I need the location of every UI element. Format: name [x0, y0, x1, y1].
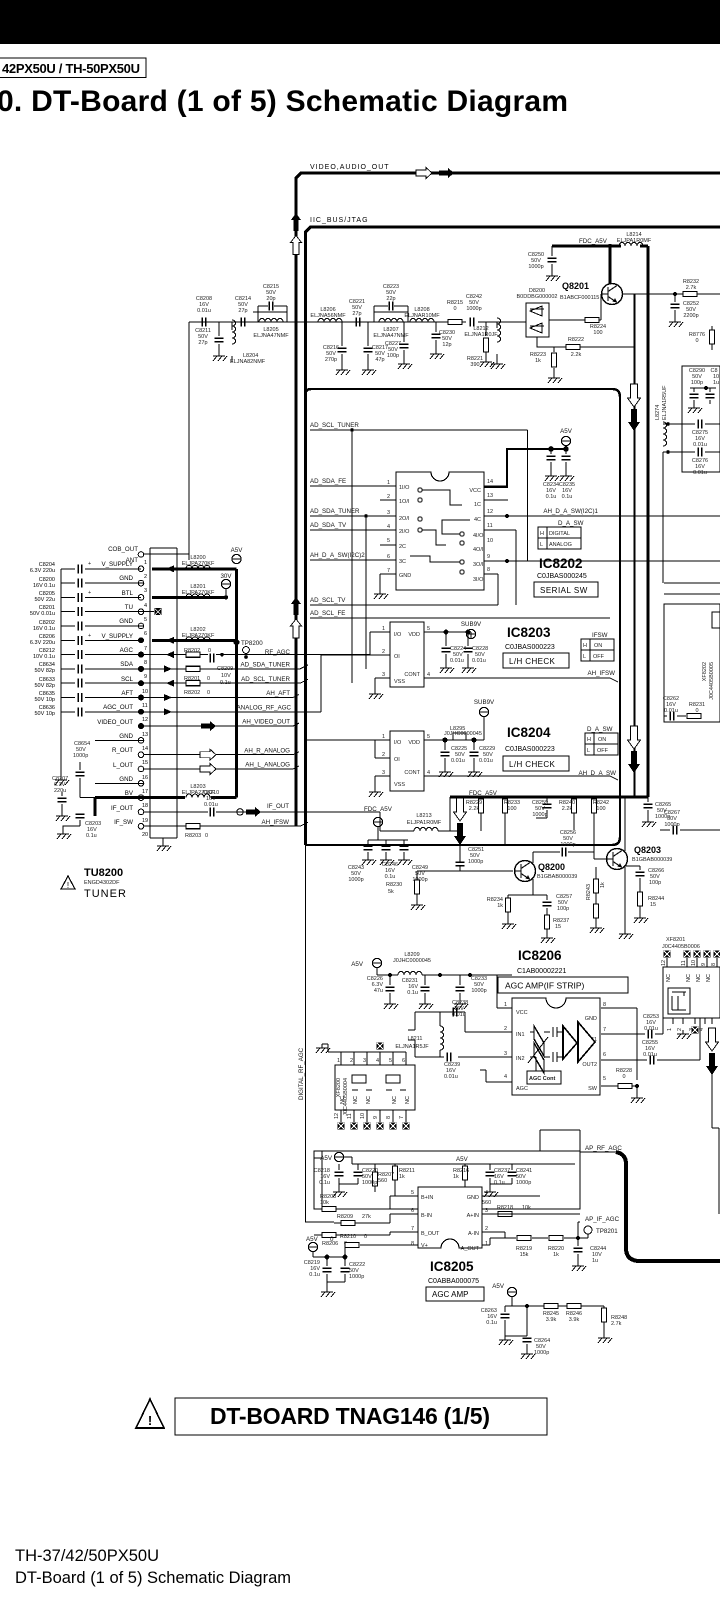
svg-text:A5V: A5V: [456, 1156, 469, 1163]
svg-text:1u: 1u: [592, 1258, 598, 1264]
svg-text:7: 7: [144, 646, 147, 652]
svg-text:560: 560: [482, 1200, 491, 1206]
svg-text:0.1u: 0.1u: [486, 1320, 497, 1326]
svg-text:7: 7: [411, 1226, 414, 1232]
svg-text:GND: GND: [585, 1016, 597, 1022]
svg-text:ELJNA1R5JF: ELJNA1R5JF: [395, 1044, 429, 1050]
svg-text:6: 6: [603, 1052, 606, 1058]
svg-text:1: 1: [485, 1241, 488, 1247]
svg-text:0.1u: 0.1u: [407, 990, 418, 996]
svg-text:1000p: 1000p: [348, 877, 363, 883]
svg-text:B0DDBG000002: B0DDBG000002: [517, 294, 558, 300]
svg-text:A5V: A5V: [492, 1283, 505, 1290]
svg-text:4: 4: [427, 770, 430, 776]
svg-text:6: 6: [402, 1058, 405, 1064]
svg-text:A+IN: A+IN: [467, 1213, 479, 1219]
svg-text:100p: 100p: [557, 906, 569, 912]
svg-text:3O/I: 3O/I: [473, 562, 484, 568]
svg-text:10k: 10k: [522, 1205, 531, 1211]
svg-text:AP_IF_AGC: AP_IF_AGC: [585, 1216, 620, 1223]
svg-text:0.01u: 0.01u: [644, 1026, 658, 1032]
svg-text:1000p: 1000p: [534, 1350, 549, 1356]
svg-text:TU8200: TU8200: [84, 867, 123, 879]
svg-text:AGC AMP(IF STRIP): AGC AMP(IF STRIP): [505, 981, 585, 991]
svg-text:4O/I: 4O/I: [473, 547, 484, 553]
svg-text:VDD: VDD: [408, 740, 420, 746]
svg-text:2: 2: [350, 1058, 353, 1064]
svg-text:AH_L_ANALOG: AH_L_ANALOG: [245, 762, 290, 769]
svg-text:ELJNA47NMF: ELJNA47NMF: [253, 333, 289, 339]
svg-text:0.1u: 0.1u: [562, 494, 573, 500]
svg-text:SDA: SDA: [120, 661, 134, 668]
svg-text:0: 0: [330, 1236, 334, 1243]
svg-text:0.01u: 0.01u: [204, 802, 218, 808]
svg-text:100p: 100p: [387, 353, 399, 359]
svg-text:100: 100: [507, 806, 516, 812]
svg-text:H: H: [587, 737, 591, 743]
svg-text:SW: SW: [588, 1086, 598, 1092]
svg-text:OFF: OFF: [597, 748, 609, 754]
svg-text:2: 2: [144, 574, 147, 580]
svg-text:AGC_OUT: AGC_OUT: [103, 704, 133, 711]
svg-text:AH_VIDEO_OUT: AH_VIDEO_OUT: [242, 719, 290, 726]
svg-text:8: 8: [411, 1241, 414, 1247]
svg-text:AD_SCL_TUNER: AD_SCL_TUNER: [310, 422, 359, 429]
svg-text:4: 4: [485, 1190, 488, 1196]
svg-text:AH_D_A_SW(I2C)2: AH_D_A_SW(I2C)2: [310, 552, 365, 559]
svg-text:1: 1: [144, 560, 147, 566]
svg-text:27p: 27p: [198, 340, 207, 346]
svg-text:NC: NC: [696, 974, 702, 982]
svg-text:6.3V 220u: 6.3V 220u: [30, 640, 55, 646]
svg-text:5k: 5k: [388, 889, 394, 895]
svg-text:AD_SDA_FE: AD_SDA_FE: [310, 478, 346, 485]
svg-text:27p: 27p: [238, 308, 247, 314]
svg-text:14: 14: [487, 479, 493, 485]
svg-text:OFF: OFF: [593, 654, 605, 660]
svg-text:DT-BOARD TNAG146 (1/5): DT-BOARD TNAG146 (1/5): [210, 1403, 490, 1429]
svg-text:10V 0.1u: 10V 0.1u: [33, 654, 55, 660]
svg-text:3: 3: [382, 770, 385, 776]
svg-text:10: 10: [360, 1113, 366, 1119]
svg-text:I/O: I/O: [394, 632, 402, 638]
svg-text:2200p: 2200p: [683, 313, 698, 319]
svg-text:3.9k: 3.9k: [569, 1317, 580, 1323]
svg-text:NC: NC: [366, 1096, 372, 1104]
svg-text:27k: 27k: [362, 1214, 371, 1220]
svg-text:H: H: [540, 531, 544, 537]
svg-text:ENGD4302DF: ENGD4302DF: [84, 880, 120, 886]
svg-text:SUB9V: SUB9V: [461, 621, 482, 628]
svg-text:100: 100: [593, 330, 602, 336]
svg-text:AD_SDA_TV: AD_SDA_TV: [310, 522, 347, 529]
svg-text:12: 12: [142, 717, 148, 723]
svg-text:5: 5: [144, 617, 147, 623]
svg-text:DIGITAL_RF_AGC: DIGITAL_RF_AGC: [298, 1047, 305, 1100]
svg-text:6: 6: [144, 631, 147, 637]
svg-text:30V: 30V: [220, 573, 232, 580]
svg-text:IC8205: IC8205: [430, 1259, 474, 1274]
svg-text:1I/O: 1I/O: [399, 485, 410, 491]
svg-text:VDD: VDD: [408, 632, 420, 638]
svg-text:L_OUT: L_OUT: [113, 762, 133, 769]
svg-text:0.01u: 0.01u: [664, 708, 678, 714]
svg-text:20: 20: [142, 832, 148, 838]
svg-text:A_OUT: A_OUT: [461, 1246, 480, 1252]
svg-text:20p: 20p: [266, 296, 275, 302]
svg-text:ELJNAR10MF: ELJNAR10MF: [404, 313, 440, 319]
svg-text:47u: 47u: [374, 988, 383, 994]
svg-text:0.1u: 0.1u: [86, 833, 97, 839]
svg-text:C0JBAS000223: C0JBAS000223: [505, 746, 555, 753]
svg-text:A5V: A5V: [560, 428, 573, 435]
svg-text:6: 6: [411, 1208, 414, 1214]
svg-text:6.3V 220u: 6.3V 220u: [30, 568, 55, 574]
svg-text:1000p: 1000p: [471, 988, 486, 994]
svg-text:FDC_A5V: FDC_A5V: [469, 790, 498, 797]
svg-text:17: 17: [142, 789, 148, 795]
svg-text:100p: 100p: [691, 380, 703, 386]
svg-text:2: 2: [504, 1026, 507, 1032]
svg-text:3: 3: [363, 1058, 366, 1064]
svg-text:C0ABBA000075: C0ABBA000075: [428, 1278, 479, 1285]
svg-text:0.01u: 0.01u: [450, 658, 464, 664]
svg-text:3C: 3C: [399, 559, 406, 565]
svg-text:IF_OUT: IF_OUT: [111, 805, 133, 812]
svg-text:0.1u: 0.1u: [319, 1180, 330, 1186]
svg-text:1000p: 1000p: [516, 1180, 531, 1186]
svg-text:3: 3: [485, 1208, 488, 1214]
svg-text:ELJNA1R5UF: ELJNA1R5UF: [662, 385, 668, 420]
svg-text:IF_OUT: IF_OUT: [267, 803, 289, 810]
svg-text:L: L: [540, 542, 543, 548]
svg-text:NC: NC: [392, 1096, 398, 1104]
svg-text:2: 2: [387, 494, 390, 500]
svg-text:R_OUT: R_OUT: [112, 747, 133, 754]
svg-text:AD_SCL_FE: AD_SCL_FE: [310, 610, 345, 617]
svg-text:18: 18: [142, 803, 148, 809]
svg-text:3: 3: [382, 672, 385, 678]
svg-text:AGC: AGC: [120, 647, 134, 654]
svg-text:J0C4405B0005: J0C4405B0005: [709, 662, 715, 700]
svg-text:9: 9: [487, 554, 490, 560]
svg-text:1: 1: [382, 734, 385, 740]
svg-text:OUT2: OUT2: [582, 1062, 597, 1068]
svg-text:0: 0: [622, 1074, 625, 1080]
svg-text:NC: NC: [686, 974, 692, 982]
svg-text:270p: 270p: [325, 357, 337, 363]
svg-text:1k: 1k: [497, 903, 503, 909]
svg-text:2.2k: 2.2k: [571, 352, 582, 358]
svg-text:AGC AMP: AGC AMP: [432, 1290, 468, 1299]
svg-text:4: 4: [144, 603, 147, 609]
svg-text:BTL: BTL: [122, 590, 134, 597]
svg-text:1000p: 1000p: [468, 859, 483, 865]
svg-text:XF8201: XF8201: [666, 937, 685, 943]
svg-text:ELJPA270KF: ELJPA270KF: [182, 633, 215, 639]
svg-text:ELJPA1R0MF: ELJPA1R0MF: [407, 820, 442, 826]
svg-text:8: 8: [487, 567, 490, 573]
svg-text:R8218: R8218: [497, 1205, 513, 1211]
svg-text:47p: 47p: [375, 357, 384, 363]
svg-text:ANALOG: ANALOG: [549, 542, 572, 548]
svg-text:NC: NC: [340, 1096, 346, 1104]
svg-text:12: 12: [661, 960, 667, 966]
svg-text:AH_R_ANALOG: AH_R_ANALOG: [244, 747, 290, 754]
svg-text:8: 8: [144, 660, 147, 666]
svg-text:390: 390: [470, 362, 479, 368]
svg-text:4I/O: 4I/O: [473, 533, 484, 539]
svg-text:R8202: R8202: [184, 690, 200, 696]
svg-text:11: 11: [347, 1113, 353, 1119]
svg-text:2.2k: 2.2k: [469, 806, 480, 812]
svg-text:GND: GND: [119, 776, 133, 783]
svg-text:COB_OUT: COB_OUT: [108, 546, 138, 553]
svg-text:1: 1: [382, 626, 385, 632]
svg-text:OI: OI: [394, 654, 400, 660]
svg-text:A-IN: A-IN: [468, 1231, 479, 1237]
svg-text:5: 5: [387, 538, 390, 544]
svg-text:0: 0: [205, 833, 208, 839]
svg-text:0.1u: 0.1u: [309, 1272, 320, 1278]
svg-text:TUNER: TUNER: [84, 888, 127, 900]
svg-text:15: 15: [650, 902, 656, 908]
svg-text:11: 11: [487, 523, 493, 529]
svg-text:3I/O: 3I/O: [473, 577, 484, 583]
svg-text:15: 15: [142, 760, 148, 766]
svg-text:1000p: 1000p: [466, 306, 481, 312]
svg-text:Q8200: Q8200: [538, 862, 565, 872]
svg-text:XF8200: XF8200: [336, 1078, 342, 1097]
svg-text:ELJPA270KF: ELJPA270KF: [182, 590, 215, 596]
svg-text:1000p: 1000p: [664, 822, 679, 828]
svg-text:7: 7: [603, 1027, 606, 1033]
svg-text:9: 9: [701, 963, 707, 966]
svg-text:4: 4: [387, 524, 390, 530]
svg-text:1u: 1u: [713, 380, 719, 386]
svg-text:IC8204: IC8204: [507, 725, 551, 740]
svg-text:AH_IFSW: AH_IFSW: [261, 819, 289, 826]
svg-text:IN2: IN2: [516, 1056, 525, 1062]
svg-text:J0C4405B0006: J0C4405B0006: [662, 944, 700, 950]
svg-text:TP8200: TP8200: [241, 640, 263, 647]
svg-text:8: 8: [603, 1002, 606, 1008]
svg-text:IN1: IN1: [516, 1032, 525, 1038]
svg-text:2.2k: 2.2k: [562, 806, 573, 812]
svg-text:C1AB00002221: C1AB00002221: [517, 968, 567, 975]
svg-text:1: 1: [337, 1058, 340, 1064]
svg-text:XF8202: XF8202: [702, 662, 708, 681]
svg-text:NC: NC: [405, 1096, 411, 1104]
svg-text:50V 22u: 50V 22u: [35, 597, 56, 603]
svg-text:1O/I: 1O/I: [399, 499, 410, 505]
svg-text:AGC Cont: AGC Cont: [529, 1076, 555, 1082]
svg-text:TP8201: TP8201: [596, 1228, 618, 1235]
svg-text:VSS: VSS: [394, 782, 405, 788]
svg-text:0: 0: [208, 648, 211, 654]
svg-text:27p: 27p: [352, 311, 361, 317]
svg-text:9: 9: [373, 1116, 379, 1119]
svg-text:V_SUPPLY: V_SUPPLY: [101, 633, 133, 640]
svg-text:7: 7: [399, 1116, 405, 1119]
svg-text:IC8206: IC8206: [518, 948, 562, 963]
svg-text:AGC: AGC: [516, 1086, 528, 1092]
svg-text:10: 10: [487, 538, 493, 544]
svg-text:AFT: AFT: [121, 690, 133, 697]
svg-text:5: 5: [427, 626, 430, 632]
svg-text:VSS: VSS: [394, 679, 405, 685]
svg-text:2: 2: [382, 649, 385, 655]
svg-text:NC: NC: [666, 974, 672, 982]
svg-text:0.01u: 0.01u: [197, 308, 211, 314]
svg-text:0: 0: [207, 676, 210, 682]
svg-text:L/H CHECK: L/H CHECK: [509, 657, 556, 666]
svg-text:R8230: R8230: [386, 882, 402, 888]
svg-text:4: 4: [427, 672, 430, 678]
svg-text:A5V: A5V: [320, 1155, 333, 1162]
svg-text:ELJNA82NMF: ELJNA82NMF: [230, 359, 266, 365]
svg-text:0.01u: 0.01u: [451, 758, 465, 764]
svg-text:L8274: L8274: [655, 405, 661, 420]
svg-text:AH_AFT: AH_AFT: [266, 690, 290, 697]
svg-text:R8210: R8210: [340, 1234, 356, 1240]
svg-text:FDC_A5V: FDC_A5V: [364, 806, 393, 813]
svg-text:AD_SCL_TV: AD_SCL_TV: [310, 597, 346, 604]
svg-text:0: 0: [207, 690, 210, 696]
svg-text:14: 14: [142, 746, 148, 752]
svg-text:H: H: [583, 643, 587, 649]
svg-text:15: 15: [555, 924, 561, 930]
svg-text:1000p: 1000p: [532, 812, 547, 818]
svg-text:1000p: 1000p: [349, 1274, 364, 1280]
svg-text:1k: 1k: [600, 882, 606, 888]
svg-text:Q8203: Q8203: [634, 845, 661, 855]
svg-text:I/O: I/O: [394, 740, 402, 746]
svg-text:9: 9: [144, 674, 147, 680]
svg-text:50V 82p: 50V 82p: [35, 683, 56, 689]
svg-text:2: 2: [485, 1226, 488, 1232]
svg-text:15k: 15k: [520, 1252, 529, 1258]
svg-text:TU: TU: [125, 604, 133, 611]
svg-text:5: 5: [603, 1076, 606, 1082]
svg-text:L/H CHECK: L/H CHECK: [509, 760, 556, 769]
svg-text:ELJNA1R0JF: ELJNA1R0JF: [464, 332, 498, 338]
svg-text:TH-37/42/50PX50U: TH-37/42/50PX50U: [15, 1547, 159, 1565]
svg-text:8: 8: [386, 1116, 392, 1119]
svg-text:IC8202: IC8202: [539, 556, 583, 571]
svg-text:1k: 1k: [399, 1174, 405, 1180]
svg-text:12p: 12p: [442, 342, 451, 348]
svg-text:3: 3: [144, 588, 147, 594]
svg-text:B1GBAB000039: B1GBAB000039: [632, 857, 672, 863]
svg-text:OI: OI: [394, 757, 400, 763]
svg-text:1: 1: [667, 1028, 673, 1031]
svg-text:IF_SW: IF_SW: [114, 819, 133, 826]
svg-text:100: 100: [596, 806, 605, 812]
svg-text:L: L: [587, 748, 590, 754]
svg-text:0. DT-Board (1 of 5) Schematic: 0. DT-Board (1 of 5) Schematic Diagram: [0, 85, 568, 118]
svg-text:5: 5: [389, 1058, 392, 1064]
svg-text:!: !: [148, 1413, 152, 1428]
svg-text:50V 10p: 50V 10p: [35, 697, 56, 703]
svg-text:2C: 2C: [399, 544, 406, 550]
svg-text:IIC_BUS/JTAG: IIC_BUS/JTAG: [310, 217, 369, 224]
svg-text:1k: 1k: [535, 358, 541, 364]
svg-text:C0JBAS000223: C0JBAS000223: [505, 644, 555, 651]
svg-text:12: 12: [334, 1113, 340, 1119]
svg-text:0.1u: 0.1u: [494, 1180, 505, 1186]
svg-text:0.01u: 0.01u: [693, 442, 707, 448]
svg-text:GND: GND: [399, 573, 411, 579]
svg-text:ON: ON: [598, 737, 606, 743]
svg-text:1: 1: [504, 1002, 507, 1008]
svg-text:B-IN: B-IN: [421, 1213, 432, 1219]
svg-text:GND: GND: [119, 575, 133, 582]
svg-text:L8213: L8213: [416, 813, 431, 819]
svg-text:16V 0.1u: 16V 0.1u: [33, 583, 55, 589]
svg-text:0.01u: 0.01u: [643, 1052, 657, 1058]
svg-text:42PX50U / TH-50PX50U: 42PX50U / TH-50PX50U: [2, 61, 140, 76]
svg-text:VCC: VCC: [516, 1010, 528, 1016]
svg-text:3: 3: [387, 510, 390, 516]
svg-text:1C: 1C: [474, 502, 481, 508]
svg-text:B_OUT: B_OUT: [421, 1231, 440, 1237]
svg-text:2.7k: 2.7k: [686, 285, 697, 291]
svg-text:1000p: 1000p: [73, 753, 88, 759]
svg-text:D_A_SW: D_A_SW: [587, 726, 613, 733]
svg-text:10: 10: [691, 960, 697, 966]
svg-text:Q8201: Q8201: [562, 281, 589, 291]
svg-text:2: 2: [382, 752, 385, 758]
svg-text:J0JHC0000045: J0JHC0000045: [393, 958, 431, 964]
svg-text:11: 11: [681, 960, 687, 966]
svg-text:CONT: CONT: [404, 672, 420, 678]
svg-text:1000p: 1000p: [528, 264, 543, 270]
svg-text:B1GBAB000039: B1GBAB000039: [537, 874, 577, 880]
svg-text:SUB9V: SUB9V: [474, 699, 495, 706]
svg-text:10: 10: [142, 689, 148, 695]
svg-text:ELJPA1R0MF: ELJPA1R0MF: [617, 238, 652, 244]
svg-text:VCC: VCC: [469, 488, 481, 494]
svg-text:+: +: [88, 633, 91, 639]
svg-text:+: +: [88, 590, 91, 596]
svg-text:0.01u: 0.01u: [444, 1074, 458, 1080]
svg-text:2: 2: [677, 1028, 683, 1031]
svg-text:16V 0.1u: 16V 0.1u: [33, 626, 55, 632]
svg-text:BV: BV: [125, 790, 134, 797]
svg-text:DT-Board (1 of 5) Schematic Di: DT-Board (1 of 5) Schematic Diagram: [15, 1569, 291, 1587]
svg-text:GND: GND: [119, 618, 133, 625]
svg-text:NC: NC: [706, 974, 712, 982]
svg-text:1k: 1k: [553, 1252, 559, 1258]
svg-text:GND: GND: [467, 1195, 479, 1201]
svg-text:4C: 4C: [474, 517, 481, 523]
svg-text:0: 0: [695, 708, 698, 714]
svg-text:0: 0: [453, 306, 456, 312]
svg-text:0.01u: 0.01u: [479, 758, 493, 764]
svg-text:13: 13: [142, 732, 148, 738]
svg-text:R8222: R8222: [568, 337, 584, 343]
svg-text:19: 19: [142, 818, 148, 824]
svg-text:CONT: CONT: [404, 770, 420, 776]
svg-text:6: 6: [387, 554, 390, 560]
svg-text:VIDEO_OUT: VIDEO_OUT: [97, 719, 133, 726]
svg-text:ELJNA56NMF: ELJNA56NMF: [310, 313, 346, 319]
svg-text:IC8203: IC8203: [507, 625, 551, 640]
svg-text:10V: 10V: [221, 673, 231, 679]
svg-text:IFSW: IFSW: [592, 632, 608, 639]
svg-text:ANALOG_RF_AGC: ANALOG_RF_AGC: [237, 705, 292, 712]
